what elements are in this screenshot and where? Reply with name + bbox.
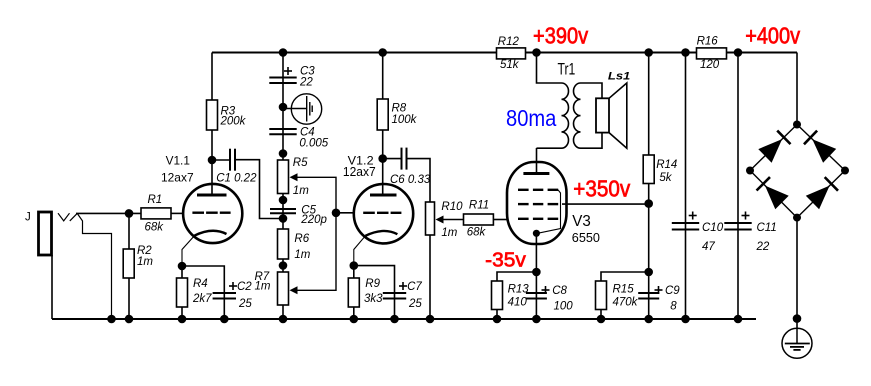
svg-text:R1: R1	[148, 194, 163, 206]
svg-text:C10: C10	[702, 222, 724, 234]
svg-text:200k: 200k	[220, 116, 247, 128]
svg-text:100: 100	[554, 301, 574, 313]
svg-text:25: 25	[408, 298, 422, 310]
svg-text:C7: C7	[407, 281, 422, 293]
svg-text:68k: 68k	[145, 222, 165, 234]
svg-text:+400v: +400v	[745, 23, 800, 49]
svg-text:C11: C11	[757, 222, 777, 234]
svg-text:410: 410	[508, 297, 528, 309]
svg-text:470k: 470k	[613, 297, 639, 309]
svg-text:R16: R16	[697, 36, 719, 48]
svg-text:C1 0.22: C1 0.22	[216, 173, 257, 185]
svg-text:C2: C2	[237, 281, 252, 293]
svg-text:R5: R5	[293, 157, 308, 169]
svg-text:R9: R9	[365, 278, 380, 290]
svg-text:R15: R15	[613, 284, 635, 296]
svg-text:J: J	[25, 212, 31, 224]
svg-text:8: 8	[670, 301, 677, 313]
svg-text:+350v: +350v	[573, 176, 630, 202]
svg-text:C6 0.33: C6 0.33	[390, 174, 431, 186]
svg-text:Ls1: Ls1	[608, 70, 630, 82]
svg-text:1m: 1m	[441, 227, 457, 239]
svg-text:R12: R12	[498, 36, 520, 48]
svg-text:6550: 6550	[572, 231, 600, 245]
svg-text:12ax7: 12ax7	[161, 171, 194, 185]
svg-text:220p: 220p	[300, 214, 327, 226]
svg-text:+390v: +390v	[533, 23, 589, 49]
svg-text:2k7: 2k7	[192, 293, 212, 305]
svg-text:Tr1: Tr1	[558, 60, 576, 79]
svg-text:51k: 51k	[500, 59, 520, 71]
svg-text:C9: C9	[665, 285, 680, 297]
svg-text:100k: 100k	[392, 114, 418, 126]
svg-text:22: 22	[299, 77, 313, 89]
svg-text:1m: 1m	[137, 256, 153, 268]
svg-text:C8: C8	[552, 285, 567, 297]
svg-text:1m: 1m	[294, 249, 310, 261]
svg-text:5k: 5k	[659, 172, 672, 184]
svg-text:1m: 1m	[255, 281, 271, 293]
svg-text:120: 120	[700, 59, 720, 71]
svg-text:-35v: -35v	[485, 249, 526, 272]
svg-text:47: 47	[702, 241, 715, 253]
svg-text:V3: V3	[572, 213, 591, 230]
svg-text:1m: 1m	[293, 185, 309, 197]
svg-text:0.005: 0.005	[299, 137, 328, 149]
svg-text:R6: R6	[294, 233, 309, 245]
svg-text:12ax7: 12ax7	[343, 165, 376, 179]
svg-text:R4: R4	[193, 278, 208, 290]
svg-text:R11: R11	[469, 200, 489, 212]
svg-text:R13: R13	[508, 284, 530, 296]
svg-text:3k3: 3k3	[364, 293, 383, 305]
svg-text:68k: 68k	[467, 227, 487, 239]
svg-text:80ma: 80ma	[506, 105, 557, 131]
svg-text:25: 25	[238, 298, 252, 310]
svg-text:R8: R8	[392, 102, 407, 114]
svg-text:R14: R14	[656, 159, 677, 171]
svg-text:R10: R10	[441, 201, 463, 213]
svg-text:22: 22	[756, 241, 770, 253]
svg-text:V1.1: V1.1	[166, 156, 190, 168]
